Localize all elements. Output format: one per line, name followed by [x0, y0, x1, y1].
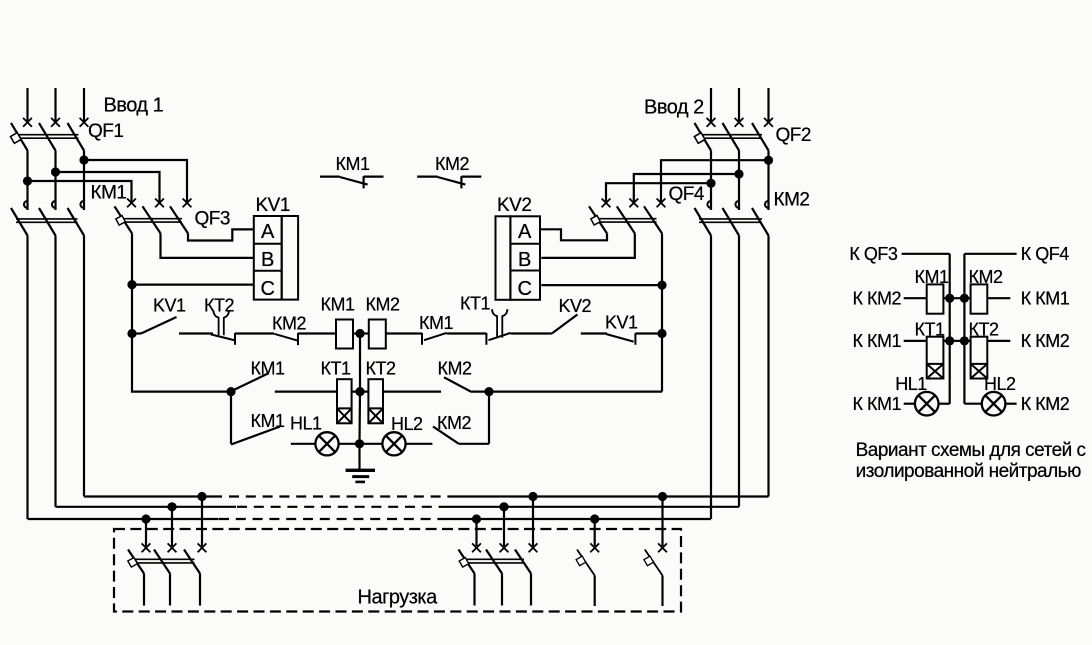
- wire К QF3 to left rail: [902, 253, 950, 255]
- load breaker 1 pole 1 blade: [128, 550, 144, 574]
- breaker QF1 pole 3 terminal x-mark: [80, 118, 89, 127]
- lamp HL1 variant: [915, 392, 939, 416]
- svg-text:HL1: HL1: [290, 414, 322, 434]
- contactor KM2 crossbar linkage: [699, 219, 762, 222]
- wire row2 KM2 contact to right vertical: [472, 391, 662, 393]
- breaker QF2 pole 3 blade: [752, 123, 769, 151]
- node row1 right junction: [657, 329, 666, 338]
- wire load drop 3: [201, 497, 203, 547]
- wire KM1 pole 2 output to middle bus: [54, 236, 56, 507]
- svg-text:KV1: KV1: [605, 313, 638, 333]
- wire QF2 pole 3 output: [767, 151, 769, 161]
- wire centre vertical N2-N3: [358, 392, 361, 444]
- svg-text:КТ2: КТ2: [366, 359, 396, 379]
- breaker QF1 pole 1 terminal x-mark: [23, 118, 32, 127]
- contactor KM1 pole 2 input wire: [54, 172, 56, 210]
- contactor KM1 pole 2 contact hook: [52, 201, 56, 208]
- load breaker 1 pole 3 output wire: [199, 574, 201, 606]
- load breaker 1 pole 2 output wire: [169, 574, 171, 606]
- contact KM2 (NO) row2 blade: [444, 377, 472, 392]
- wire QF3 pole 1 down to node C1: [131, 233, 133, 284]
- svg-text:КМ2: КМ2: [435, 154, 469, 174]
- contact KV2 (NO) row1 blade: [552, 315, 578, 334]
- load breaker terminal x-mark 1: [142, 543, 151, 552]
- breaker QF2 crossbar linkage: [699, 135, 762, 139]
- load breaker 2 pole 3 blade: [515, 550, 531, 574]
- wire KV2 pin C to node C2: [541, 284, 662, 286]
- node N2 (row2 centre): [355, 387, 364, 396]
- time contact KT2 (delay cup and blade): [219, 317, 224, 335]
- coil KM2 variant: [971, 284, 988, 313]
- contact KM1 aux (NC): [320, 176, 384, 188]
- contactor KM2 pole 2 contact hook: [735, 201, 739, 208]
- wire node C2 down to control row 1: [661, 285, 663, 333]
- contactor KM2 pole 2 blade: [723, 208, 740, 236]
- contact KM1 (NO) row2 blade: [231, 373, 269, 391]
- node N1 (row1 centre): [355, 329, 364, 338]
- svg-text:HL2: HL2: [391, 414, 423, 434]
- load breaker 2 handle square: [459, 558, 469, 568]
- wire row1 KV2 to KV1 contact: [581, 332, 607, 334]
- load breaker 2 pole 1 output wire: [473, 574, 475, 606]
- svg-text:КМ1: КМ1: [419, 313, 453, 333]
- wire QF1 pole 1 output: [26, 151, 28, 182]
- wire node C1 to KV1 pin C: [132, 284, 254, 286]
- breaker QF4 pole 3 terminal x-mark: [657, 199, 666, 208]
- svg-text:К QF3: К QF3: [849, 244, 897, 264]
- node load tap 4: [472, 514, 481, 523]
- wire KM2 pole 1 output to bottom bus: [710, 236, 712, 520]
- svg-text:A: A: [518, 221, 532, 243]
- contactor KM2 pole 1 contact hook: [707, 201, 711, 208]
- wire QF1 pole 2 output: [54, 151, 56, 173]
- node load tap 2: [167, 502, 176, 511]
- breaker QF2 pole 1 blade: [695, 123, 712, 151]
- wire row1 KT2 to KM2 contact: [235, 332, 274, 334]
- load breaker 1 handle square: [128, 558, 138, 568]
- contactor KM1 pole 1 contact hook: [24, 201, 28, 208]
- contactor KM2 pole 1 blade: [695, 208, 712, 236]
- contactor KM1 pole 2 blade: [39, 208, 56, 236]
- breaker QF4 crossbar linkage: [594, 219, 657, 222]
- node junction QF2 pole 3: [764, 156, 773, 165]
- time relay coil KT1 variant: [927, 337, 944, 379]
- wire feeder input 2 phase 3: [767, 88, 769, 121]
- svg-text:КМ1: КМ1: [251, 411, 285, 431]
- wire lamp HL2 to К КМ2: [1006, 403, 1017, 405]
- load breaker 2 pole 2 blade: [486, 550, 502, 574]
- coil KM1 variant: [927, 284, 944, 313]
- wire К КМ1 to lamp HL1: [904, 403, 915, 405]
- svg-text:К КМ2: К КМ2: [1021, 331, 1070, 351]
- breaker QF3 pole 2 terminal x-mark: [155, 199, 164, 208]
- svg-text:К КМ2: К КМ2: [1021, 394, 1070, 414]
- node N3 (row3 centre): [355, 439, 364, 448]
- node junction QF1 pole 3: [79, 155, 88, 164]
- breaker QF3 crossbar linkage: [119, 219, 182, 222]
- wire QF2 pole 1 output: [710, 151, 712, 184]
- breaker QF1 pole 2 blade: [39, 123, 56, 151]
- svg-text:КМ1: КМ1: [321, 295, 355, 315]
- time relay coil KT2 variant: [971, 337, 988, 379]
- wire coil KM2 to KM1 contact: [386, 332, 422, 334]
- wire row3 KM1 contact to lamp HL1: [291, 443, 316, 445]
- wire bottom bus right (solid): [447, 518, 711, 520]
- wire right rail to lamp HL2: [964, 403, 981, 405]
- svg-text:КМ2: КМ2: [437, 413, 471, 433]
- wire left vertical row2-row3: [230, 392, 232, 444]
- wire middle bus right (solid): [448, 506, 739, 508]
- contactor KM2 pole 1 input wire: [710, 183, 712, 210]
- load breaker 2 crossbar linkage: [462, 559, 524, 563]
- load breaker 3 blade: [577, 550, 595, 576]
- svg-text:КМ2: КМ2: [272, 314, 306, 334]
- load breaker terminal x-mark 4: [472, 543, 481, 552]
- wire bottom bus middle (dashed): [219, 518, 447, 520]
- wire branch to QF3 pole 1: [28, 181, 132, 204]
- wire right riser row3-row2: [488, 392, 490, 444]
- wire QF3 pole 2 to KV1 pin B: [161, 233, 254, 258]
- wire feeder input 1 phase 2: [54, 88, 56, 121]
- lamp HL2: [382, 432, 405, 455]
- wire row3 KM2 contact to right riser: [459, 443, 489, 445]
- breaker QF1 pole 2 terminal x-mark: [51, 118, 60, 127]
- breaker QF4 operating handle square: [591, 216, 600, 225]
- load breaker 1 pole 2 blade: [154, 550, 170, 574]
- coil KM2: [369, 320, 386, 349]
- wire right control vertical row1-row2: [661, 334, 663, 392]
- contactor KM2 pole 3 input wire: [767, 160, 769, 210]
- wire row1 KM2 contact to coil KM1: [298, 332, 336, 334]
- breaker QF4 pole 3 blade: [644, 206, 662, 233]
- node junction QF1 pole 2: [51, 167, 60, 176]
- load breaker 1 pole 1 output wire: [143, 574, 145, 606]
- contactor KM2 pole 3 blade: [752, 208, 769, 236]
- wire coil КТ1 to rails: [943, 340, 970, 342]
- contactor KM1 pole 1 input wire: [26, 181, 28, 210]
- wire К КМ2 to coil КМ1: [904, 297, 927, 299]
- svg-text:КТ1: КТ1: [321, 359, 351, 379]
- wire load drop 4: [475, 519, 477, 546]
- load breaker terminal x-mark 7: [590, 543, 599, 552]
- wire centre vertical N1-N2: [359, 334, 361, 392]
- svg-text:К КМ1: К КМ1: [1021, 289, 1070, 309]
- wire KM2 pole 2 output to middle bus: [738, 236, 740, 507]
- wire node C1 down to control row 1: [131, 285, 133, 334]
- breaker QF2 operating handle square: [694, 133, 705, 144]
- wire QF1 pole 3 output: [83, 151, 85, 161]
- breaker QF3 pole 3 blade: [170, 206, 188, 233]
- load area dashed box: [114, 529, 681, 612]
- wire variant right rail: [963, 254, 965, 404]
- load breaker 1 crossbar linkage: [132, 559, 195, 563]
- load breaker terminal x-mark 3: [198, 543, 207, 552]
- wire variant left rail: [949, 254, 951, 404]
- svg-text:HL2: HL2: [984, 374, 1016, 394]
- node junction QF1 pole 1: [23, 176, 32, 185]
- wire load drop 6: [532, 497, 534, 547]
- contactor KM1 pole 3 blade: [68, 208, 85, 236]
- node load tap 6: [528, 492, 537, 501]
- svg-text:КМ2: КМ2: [366, 295, 400, 315]
- contactor KM1 pole 3 input wire: [83, 160, 85, 210]
- contactor KM1 crossbar linkage: [16, 219, 78, 222]
- wire coil КМ2 to К КМ1: [987, 297, 1010, 299]
- load breaker 4 handle square: [644, 556, 654, 566]
- wire top bus right (solid): [449, 495, 769, 497]
- svg-text:КМ1: КМ1: [336, 154, 370, 174]
- node row2 left junction: [226, 387, 235, 396]
- wire branch to QF3 pole 3: [84, 160, 187, 204]
- load breaker 1 pole 3 blade: [184, 550, 200, 574]
- breaker QF4 pole 1 blade: [589, 206, 607, 233]
- voltage relay KV2 box: [496, 216, 541, 299]
- wire coil KT2 to KM2 contact: [383, 391, 441, 393]
- wire left control vertical row1-row2 and row2 rail: [132, 334, 231, 392]
- breaker QF2 pole 2 terminal x-mark: [735, 118, 744, 127]
- load breaker 2 pole 1 blade: [459, 550, 475, 574]
- wire KM1 pole 1 output to bottom bus: [26, 236, 28, 520]
- node C1 junction: [127, 280, 136, 289]
- wire QF2 pole 2 output: [738, 151, 740, 175]
- load breaker 2 pole 3 output wire: [530, 574, 532, 606]
- node row2 right junction: [484, 387, 493, 396]
- node variant left rail KT: [945, 336, 954, 345]
- contact KM1 (NC) row1 right: [422, 333, 447, 345]
- wire row1 KT1 to KV2 contact: [511, 332, 552, 334]
- breaker QF3 pole 3 terminal x-mark: [183, 199, 192, 208]
- svg-text:KV2: KV2: [559, 296, 592, 316]
- svg-text:КМ1: КМ1: [91, 183, 127, 204]
- wire QF4 pole 2 to KV2 pin B: [541, 233, 635, 258]
- svg-text:К КМ1: К КМ1: [853, 394, 902, 414]
- wire middle bus left (solid): [56, 506, 237, 508]
- wire load drop 1: [145, 519, 147, 546]
- breaker QF1 operating handle square: [10, 133, 21, 144]
- wire KM2 pole 3 output to top bus: [767, 236, 769, 497]
- svg-text:KV1: KV1: [256, 195, 290, 216]
- contact KM2 (NO) row3 blade: [433, 427, 459, 444]
- svg-text:КТ2: КТ2: [204, 296, 234, 316]
- wire lamp HL1 to node N3: [339, 443, 360, 445]
- node variant right rail KM: [960, 294, 969, 303]
- load breaker 2 pole 2 output wire: [501, 574, 503, 606]
- time relay coil KT2: [368, 379, 383, 423]
- svg-text:КМ1: КМ1: [251, 359, 285, 379]
- svg-text:КМ2: КМ2: [438, 359, 472, 379]
- svg-text:Нагрузка: Нагрузка: [358, 587, 439, 609]
- breaker QF4 pole 2 blade: [617, 206, 635, 233]
- wire coil КМ1 to rails: [943, 297, 970, 299]
- wire bottom bus left (solid): [28, 518, 219, 520]
- wire branch to QF4 pole 2: [634, 174, 739, 204]
- wire К КМ1 to coil КТ1: [904, 340, 927, 342]
- contactor KM2 pole 3 contact hook: [765, 201, 769, 208]
- wire load drop 2: [171, 507, 173, 546]
- contactor KM1 pole 3 contact hook: [80, 201, 84, 208]
- breaker QF1 pole 3 blade: [68, 123, 85, 151]
- breaker QF2 pole 2 blade: [723, 123, 740, 151]
- lamp HL2 variant: [982, 392, 1006, 416]
- node junction QF2 pole 1: [706, 179, 715, 188]
- coil KM1: [336, 320, 353, 349]
- load breaker terminal x-mark 2: [168, 543, 177, 552]
- wire row1 to right vertical: [635, 332, 662, 334]
- wire branch to QF3 pole 2: [56, 172, 160, 204]
- breaker QF1 crossbar linkage: [16, 135, 79, 139]
- wire top bus left (solid): [84, 495, 222, 497]
- wire coil KM1 to node N1: [353, 332, 369, 334]
- node load tap 3: [197, 492, 206, 501]
- contact KV1 (NO) row1 blade: [132, 317, 177, 334]
- wire QF4 pole 1 to KV2 pin A: [540, 229, 607, 240]
- time contact KT1 (delay cup and blade): [486, 333, 510, 345]
- svg-text:QF1: QF1: [88, 121, 123, 142]
- svg-text:QF3: QF3: [195, 209, 230, 230]
- breaker QF3 pole 2 blade: [143, 206, 161, 233]
- voltage relay KV1 box: [254, 216, 298, 300]
- ground symbol: [358, 444, 360, 470]
- node row1 left junction: [127, 329, 136, 338]
- node junction QF2 pole 2: [734, 169, 743, 178]
- svg-text:KV2: KV2: [497, 195, 531, 216]
- load breaker 4 blade: [645, 550, 663, 576]
- wire branch to QF4 pole 3: [661, 160, 769, 204]
- wire row2 KM1 contact to coil KT1: [275, 391, 337, 393]
- wire QF3 pole 3 to KV1 pin A: [188, 229, 254, 240]
- contactor KM2 pole 2 input wire: [738, 174, 740, 210]
- wire top bus middle (dashed): [229, 495, 449, 497]
- breaker QF3 pole 1 terminal x-mark: [127, 199, 136, 208]
- wire load drop 5: [503, 507, 505, 546]
- node load tap 8: [658, 492, 667, 501]
- svg-text:К КМ1: К КМ1: [853, 331, 902, 351]
- breaker QF3 pole 1 blade: [115, 206, 133, 233]
- wire load drop 8: [661, 497, 663, 547]
- wire row1 KM1 contact to KT1: [447, 332, 487, 334]
- node variant left rail KM: [945, 294, 954, 303]
- wire lamp HL1 to left rail: [939, 403, 950, 405]
- load breaker 4 output wire: [661, 576, 663, 607]
- time relay coil KT1: [337, 379, 352, 423]
- svg-text:B: B: [518, 249, 531, 271]
- svg-text:изолированной нейтралью: изолированной нейтралью: [856, 461, 1081, 482]
- wire feeder input 1 phase 1: [26, 88, 28, 121]
- load breaker terminal x-mark 5: [500, 543, 509, 552]
- load breaker terminal x-mark 6: [529, 543, 538, 552]
- wire coil КТ2 to К КМ2: [987, 340, 1010, 342]
- lamp HL1: [315, 432, 338, 455]
- svg-text:К КМ2: К КМ2: [853, 289, 902, 309]
- wire branch to QF4 pole 1: [606, 183, 711, 204]
- svg-text:C: C: [260, 278, 274, 300]
- contact KM2 aux (NC): [417, 176, 481, 188]
- breaker QF4 pole 1 terminal x-mark: [602, 199, 611, 208]
- svg-text:Ввод 1: Ввод 1: [104, 95, 164, 117]
- contact KM2 (NC) row1: [274, 333, 298, 345]
- load breaker terminal x-mark 8: [658, 543, 667, 552]
- svg-text:B: B: [261, 249, 274, 271]
- wire row1 KV1 to KT2: [179, 332, 213, 334]
- svg-text:A: A: [261, 221, 275, 243]
- wire feeder input 2 phase 2: [738, 88, 740, 121]
- svg-text:К QF4: К QF4: [1021, 244, 1069, 264]
- node C2 junction: [657, 281, 666, 290]
- svg-text:QF4: QF4: [669, 184, 705, 205]
- svg-text:Вариант схемы для сетей с: Вариант схемы для сетей с: [856, 440, 1086, 461]
- node load tap 5: [499, 502, 508, 511]
- wire node N3 to lamp HL2: [360, 443, 383, 445]
- svg-text:Ввод 2: Ввод 2: [644, 97, 704, 119]
- node load tap 1: [141, 514, 150, 523]
- contact KM1 (NO) row3 blade: [231, 427, 280, 445]
- wire QF4 pole 3 down to node C2: [661, 233, 663, 285]
- wire load drop 7: [594, 519, 596, 546]
- wire feeder input 1 phase 3: [83, 88, 85, 121]
- load breaker 3 handle square: [576, 556, 586, 566]
- svg-text:КМ2: КМ2: [774, 190, 810, 211]
- breaker QF4 pole 2 terminal x-mark: [629, 199, 638, 208]
- breaker QF2 pole 3 terminal x-mark: [764, 118, 773, 127]
- wire lamp HL2 to KM2 contact: [406, 443, 433, 445]
- node variant right rail KT: [960, 336, 969, 345]
- svg-text:QF2: QF2: [776, 125, 811, 146]
- wire feeder input 2 phase 1: [710, 88, 712, 121]
- breaker QF1 pole 1 blade: [11, 123, 28, 151]
- svg-text:KV1: KV1: [153, 296, 186, 316]
- node load tap 7: [590, 514, 599, 523]
- wire KM1 pole 3 output to top bus: [83, 236, 85, 497]
- breaker QF3 operating handle square: [116, 216, 125, 225]
- load breaker 3 output wire: [594, 576, 596, 607]
- svg-text:КТ1: КТ1: [460, 294, 490, 314]
- breaker QF2 pole 1 terminal x-mark: [707, 118, 716, 127]
- wire coil KT1 to node N2: [352, 391, 369, 393]
- wire right rail to К QF4: [964, 253, 1016, 255]
- contactor KM1 pole 1 blade: [11, 208, 28, 236]
- contact KV1 (NC) row1 right: [606, 333, 635, 345]
- svg-text:C: C: [517, 278, 531, 300]
- svg-text:HL1: HL1: [895, 374, 927, 394]
- wire middle bus middle (dashed): [237, 506, 448, 508]
